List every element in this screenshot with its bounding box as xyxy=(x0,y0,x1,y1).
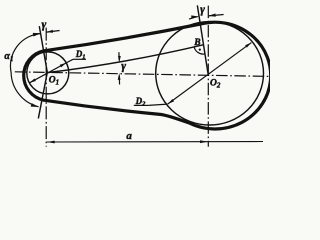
alpha1 wrap angle dimension arc around small pulley xyxy=(10,34,40,107)
svg-text:B: B xyxy=(193,38,200,48)
vertical center line through big pulley (dash-dot) xyxy=(207,6,209,147)
radius line from O1 toward bottom tangent point, extended down xyxy=(38,72,47,118)
D1 leader and label xyxy=(66,59,73,62)
svg-text:a: a xyxy=(126,130,132,142)
open flat-belt drive geometry diagram xyxy=(0,0,270,153)
center distance dimension line a with arrows xyxy=(47,141,263,144)
gamma angle dimension mid-span between O1B line and center line xyxy=(118,52,120,60)
svg-text:γ: γ xyxy=(42,19,47,31)
right-angle marker with dot at point B xyxy=(194,46,205,54)
svg-text:D1: D1 xyxy=(75,49,86,61)
svg-text:γ: γ xyxy=(121,61,126,73)
gamma angle dimension arrows at big pulley top xyxy=(189,17,198,20)
belt (thick loop around both pulleys) xyxy=(24,22,271,129)
svg-text:α1: α1 xyxy=(4,51,13,63)
svg-text:O1: O1 xyxy=(49,76,59,87)
svg-text:γ: γ xyxy=(200,4,205,16)
vertical center line through small pulley (dash-dot) xyxy=(45,28,47,147)
D2 diameter line with outward arrows xyxy=(168,43,252,104)
horizontal center line through O1 and O2 (dash-dot) xyxy=(15,72,270,77)
line from O1 to point B (parallel to top belt side) xyxy=(47,45,203,73)
large pulley circle D2 xyxy=(156,22,264,125)
D1 diameter line with outward arrows xyxy=(29,63,66,83)
svg-text:O2: O2 xyxy=(210,79,221,90)
D2 leader and label xyxy=(148,104,167,105)
radius line from O1 to top tangent point, extended up xyxy=(39,26,47,72)
gamma angle dimension right arrow at small pulley top xyxy=(47,31,60,33)
svg-text:D2: D2 xyxy=(135,96,147,108)
small pulley circle D1 xyxy=(27,52,69,94)
radius line from O2 to top tangent point, extended up xyxy=(197,5,208,75)
